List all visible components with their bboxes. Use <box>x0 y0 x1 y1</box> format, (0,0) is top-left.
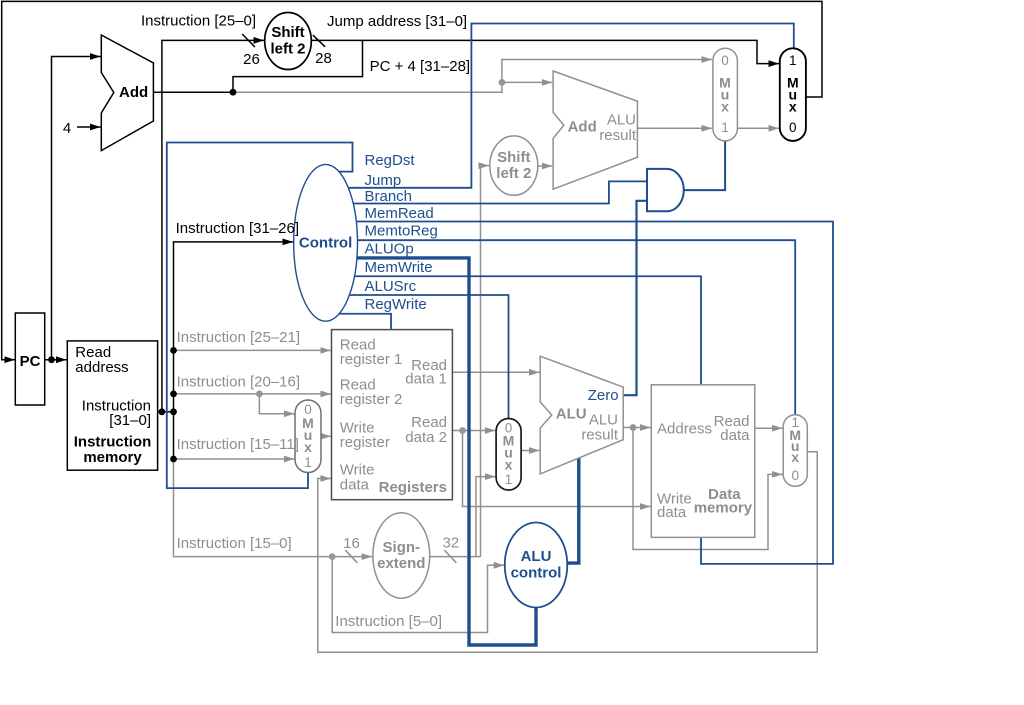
wire: Instruction 5-0 to ALU control <box>332 557 504 633</box>
svg-text:ALUOp: ALUOp <box>365 240 414 257</box>
wire: Zero flag from ALU to AND gate bottom input <box>623 201 647 395</box>
svg-text:Instruction [25–0]: Instruction [25–0] <box>141 12 256 29</box>
svg-text:x: x <box>721 99 729 115</box>
svg-text:extend: extend <box>377 555 425 572</box>
svg-text:Address: Address <box>657 420 712 437</box>
shift left 2 ellipse (jump) <box>265 13 312 70</box>
wire: PC+4 upper bits step to jump address line <box>233 40 363 92</box>
svg-text:1: 1 <box>304 455 312 470</box>
wire: MemtoReg from control to memory mux select <box>357 240 796 415</box>
wire: branch mux output to jump mux input 0 <box>737 127 779 129</box>
wire: gray shift left 2 output to branch Add bottom input <box>538 165 553 167</box>
svg-text:Zero: Zero <box>588 387 619 404</box>
svg-text:data: data <box>340 476 370 493</box>
svg-text:result: result <box>599 127 637 144</box>
svg-text:data: data <box>720 427 750 444</box>
branch mux (gray) <box>713 48 738 141</box>
svg-text:ALU: ALU <box>521 548 552 565</box>
svg-text:Add: Add <box>568 119 597 136</box>
svg-text:MemWrite: MemWrite <box>365 259 433 276</box>
instruction memory box <box>67 341 157 470</box>
svg-text:Jump: Jump <box>365 172 402 189</box>
wire: sign-extend output to ALU mux input 1 <box>476 477 495 557</box>
wire: Branch from control to AND gate top input <box>352 181 647 203</box>
PC register box <box>15 313 44 405</box>
wire: RegWrite from control to registers <box>338 314 391 330</box>
svg-text:Instruction: Instruction <box>74 434 152 451</box>
svg-text:Control: Control <box>299 235 352 252</box>
svg-text:Instruction [20–16]: Instruction [20–16] <box>177 373 300 390</box>
junction: ALU result split <box>630 424 637 431</box>
wire: read data 1 to ALU top input <box>452 371 539 373</box>
wire: ALUOp bold from control to ALU control <box>356 258 536 645</box>
svg-text:0: 0 <box>721 53 729 68</box>
wire: RegDst from control to write-register mux select <box>167 143 353 489</box>
branch adder Add (gray) <box>553 71 637 189</box>
slash: 16 bit width <box>345 550 357 563</box>
wire: instruction memory output <box>158 411 174 413</box>
junction: PC+4 to branch adder and mux <box>499 79 506 86</box>
junction: instruction 20-16 to mux <box>256 391 263 398</box>
ALU control ellipse <box>505 523 568 608</box>
slash: 28 bit width <box>313 35 325 47</box>
wire: AND gate output to branch mux select <box>685 141 726 190</box>
svg-text:Instruction [15–11]: Instruction [15–11] <box>177 436 299 453</box>
svg-text:PC: PC <box>20 353 41 370</box>
wire: Instruction 20-16 branch down to write-register mux input 0 <box>259 394 294 414</box>
junction: instruction bus B at memory output <box>170 408 177 415</box>
svg-text:x: x <box>791 449 799 465</box>
data memory box <box>651 385 755 538</box>
svg-text:left 2: left 2 <box>270 41 305 58</box>
junction: instruction 25-21 tap <box>170 347 177 354</box>
svg-text:Instruction [5–0]: Instruction [5–0] <box>335 613 442 630</box>
junction: read data 2 split <box>459 427 466 434</box>
svg-text:ALU: ALU <box>607 112 636 129</box>
wire: Instruction 25-21 to read register 1 <box>174 349 331 351</box>
svg-text:Branch: Branch <box>365 188 413 205</box>
svg-text:0: 0 <box>791 468 799 483</box>
wire: read data 2 down to data memory write data <box>463 431 651 507</box>
svg-text:ALUSrc: ALUSrc <box>365 278 417 295</box>
svg-text:1: 1 <box>721 120 729 135</box>
svg-text:RegDst: RegDst <box>365 152 416 169</box>
svg-text:4: 4 <box>63 120 71 137</box>
svg-text:register 2: register 2 <box>340 391 403 408</box>
wire: ALUSrc from control to ALU mux select <box>349 295 509 419</box>
svg-text:1: 1 <box>505 472 513 487</box>
svg-text:memory: memory <box>694 500 753 517</box>
wire: sign-extend output up to gray shift left 2 <box>481 166 490 557</box>
control ellipse <box>294 164 358 321</box>
svg-text:left 2: left 2 <box>496 165 531 182</box>
wire: ALU control output bold to ALU <box>567 458 579 564</box>
svg-text:16: 16 <box>343 535 360 552</box>
svg-text:RegWrite: RegWrite <box>365 296 427 313</box>
svg-text:Instruction [31–26]: Instruction [31–26] <box>176 220 299 237</box>
junction: instruction bus A at memory output <box>159 408 166 415</box>
wire: instruction bus vertical A (Instruction 25-0 up to shift left 2) <box>162 40 264 411</box>
svg-text:Jump address [31–0]: Jump address [31–0] <box>327 13 467 30</box>
svg-text:data 1: data 1 <box>405 371 447 388</box>
svg-text:x: x <box>505 457 513 473</box>
svg-text:control: control <box>511 565 562 582</box>
wire: ALU mux output to ALU bottom input <box>521 450 539 452</box>
svg-text:1: 1 <box>789 53 797 68</box>
svg-text:ALU: ALU <box>556 406 587 423</box>
junction: instruction 20-16 tap <box>170 391 177 398</box>
svg-text:PC + 4 [31–28]: PC + 4 [31–28] <box>370 58 471 75</box>
wire: jump mux output loop over top edge into PC <box>2 1 822 359</box>
wire: PC output to instruction memory read address <box>45 359 67 361</box>
wire: instruction bus vertical B with Instruction 31-26 into Control <box>174 242 294 459</box>
svg-text:Instruction [25–21]: Instruction [25–21] <box>177 329 300 346</box>
svg-text:Registers: Registers <box>379 479 447 496</box>
wire: read data 2 to ALU mux input 0 <box>452 430 495 432</box>
svg-text:register: register <box>340 434 390 451</box>
memory mux (gray) <box>783 415 807 487</box>
wire: PC output up to Add top input <box>52 57 101 360</box>
wire: data memory read data to memory mux input 1 <box>755 427 783 429</box>
wire: jump address 31-0 into jump mux input 1 <box>311 40 779 63</box>
junction: instruction 15-11 tap <box>170 456 177 463</box>
ALU operand mux <box>496 419 521 491</box>
adder Add (PC+4) <box>101 35 153 151</box>
wire: PC+4 up to branch mux input 0 <box>502 60 712 83</box>
svg-text:register 1: register 1 <box>340 351 403 368</box>
sign-extend ellipse <box>373 513 430 598</box>
svg-text:[31–0]: [31–0] <box>109 412 151 429</box>
svg-text:address: address <box>75 359 128 376</box>
wire: memory mux output write-back to registers write data <box>318 452 817 653</box>
wire: Instruction 15-11 to write-register mux input 1 <box>174 458 295 460</box>
junction: PC+4 split <box>230 89 237 96</box>
svg-text:Shift: Shift <box>497 149 530 166</box>
junction: instruction 15-0 to sign extend and ALU control <box>329 553 336 560</box>
wire: ALU result to data memory address <box>623 427 650 429</box>
svg-text:data: data <box>657 504 687 521</box>
svg-text:Add: Add <box>119 84 148 101</box>
svg-text:Instruction [15–0]: Instruction [15–0] <box>177 535 292 552</box>
svg-text:x: x <box>789 99 797 115</box>
shift left 2 ellipse (branch, gray) <box>490 136 538 195</box>
wire: branch Add result to branch mux input 1 <box>637 127 712 129</box>
registers box <box>332 330 453 500</box>
svg-text:memory: memory <box>83 449 142 466</box>
write-register mux <box>295 400 321 473</box>
svg-text:x: x <box>304 439 312 455</box>
wire: write-register mux output to write register port <box>321 435 331 437</box>
wire: ALU result bypass to memory mux input 0 <box>633 428 783 550</box>
wire: PC+4 from junction to step up <box>233 82 502 92</box>
AND gate <box>647 169 684 211</box>
svg-text:data 2: data 2 <box>405 429 447 446</box>
svg-text:26: 26 <box>243 51 260 68</box>
svg-text:0: 0 <box>789 120 797 135</box>
wire: Add output to junction <box>153 91 233 93</box>
wire: Instruction 20-16 to read register 2 <box>174 393 331 395</box>
svg-text:28: 28 <box>315 50 332 67</box>
wire: MemRead from control to data memory read port <box>356 222 834 564</box>
junction: PC output <box>48 356 55 363</box>
svg-text:MemtoReg: MemtoReg <box>365 222 438 239</box>
svg-text:Sign-: Sign- <box>383 539 421 556</box>
wire: constant 4 into Add bottom input <box>77 126 101 128</box>
slash: 32 bit width <box>444 550 456 563</box>
wire: Instruction 15-0 to sign-extend <box>174 459 373 557</box>
ALU shape (gray) <box>540 356 623 474</box>
wire: PC+4 to branch Add top input <box>502 81 552 83</box>
wire: sign-extend output <box>430 556 481 558</box>
jump mux (black) <box>780 48 806 141</box>
wire: MemWrite from control to data memory write port <box>354 276 701 385</box>
slash: 26 bit width <box>242 34 255 47</box>
svg-text:MemRead: MemRead <box>365 205 434 222</box>
svg-text:Shift: Shift <box>271 24 304 41</box>
wire: Jump from control to jump mux select <box>347 24 794 188</box>
svg-text:result: result <box>581 426 619 443</box>
svg-text:32: 32 <box>442 535 459 552</box>
